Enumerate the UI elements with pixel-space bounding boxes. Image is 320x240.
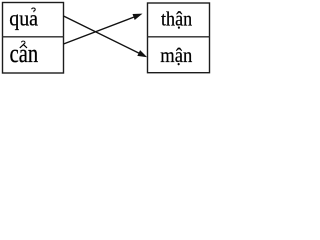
svg-text:mận: mận: [160, 45, 192, 67]
svg-text:qua: qua: [9, 5, 38, 30]
svg-text:thận: thận: [161, 9, 192, 31]
